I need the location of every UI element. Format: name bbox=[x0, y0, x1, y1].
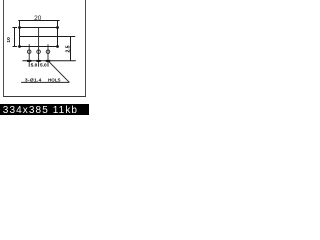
dimension 10 (left): extension lines bbox=[13, 27, 18, 29]
svg-text:20: 20 bbox=[34, 15, 42, 22]
svg-text:334x385 11kb: 334x385 11kb bbox=[3, 105, 78, 115]
corner dots bbox=[18, 26, 21, 29]
svg-text:3-Ø1.4: 3-Ø1.4 bbox=[25, 77, 42, 83]
dimension 10: dim line bbox=[14, 28, 16, 47]
svg-text:10: 10 bbox=[6, 37, 12, 43]
frame bottom border bbox=[3, 96, 86, 98]
svg-text:2.5: 2.5 bbox=[65, 45, 71, 52]
dimension 20: dim line bbox=[18, 20, 59, 22]
center line hole H3 bbox=[47, 44, 49, 67]
dimension 20: extension lines bbox=[19, 21, 21, 28]
hole H2 bbox=[37, 50, 41, 54]
hole H3 bbox=[46, 50, 50, 54]
arrowheads at crossings bbox=[27, 60, 31, 62]
dimension 5.0/5.0 line (also bottom tick of right dim) bbox=[22, 60, 75, 62]
svg-text:5.0: 5.0 bbox=[40, 62, 47, 68]
center line hole H1 bbox=[28, 44, 30, 67]
hole H1 bbox=[27, 50, 31, 54]
svg-text:5.0: 5.0 bbox=[31, 62, 38, 68]
svg-text:HOLS: HOLS bbox=[48, 77, 61, 82]
internal line with right extension bbox=[20, 36, 76, 38]
part outline rectangle bbox=[20, 28, 58, 47]
right dimension 2.5: dim line bbox=[70, 37, 72, 61]
caption bar bbox=[0, 104, 89, 115]
frame left border bbox=[3, 0, 5, 97]
leader underline bbox=[21, 81, 69, 83]
leader line (diagonal) bbox=[48, 61, 69, 83]
center line hole H2 (main axis) bbox=[38, 28, 40, 67]
frame right border bbox=[85, 0, 87, 97]
